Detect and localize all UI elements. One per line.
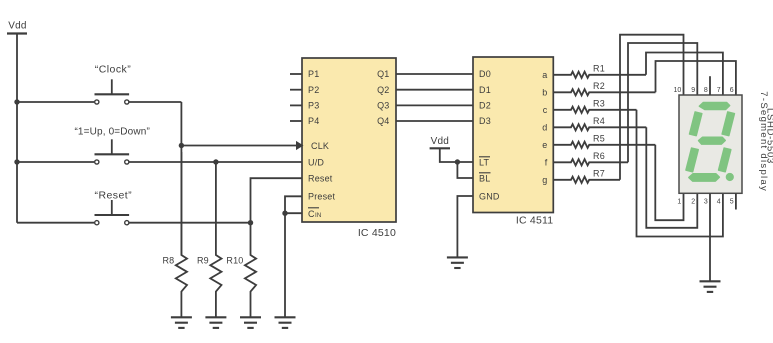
svg-text:“Clock”: “Clock” [95,63,131,75]
pin label CLK + clock arrow [296,141,329,151]
wire left rail vertical [16,34,18,223]
svg-text:5: 5 [730,199,734,206]
svg-text:8: 8 [704,87,708,94]
svg-text:IC 4511: IC 4511 [516,215,553,227]
svg-text:IN: IN [315,212,322,219]
svg-text:Q3: Q3 [377,101,389,111]
svg-text:R4: R4 [593,116,605,126]
svg-text:GND: GND [479,191,500,201]
pin P4 stub [290,120,302,122]
wire R5 to display pin [655,145,683,220]
segment f [690,112,702,136]
svg-text:D2: D2 [479,101,491,111]
wire Q2 to D1 [396,89,473,91]
wire R3 to display pin [637,110,723,237]
pin 5 stub (bottom, n/c) [735,193,737,209]
segment g [699,137,726,144]
svg-text:Reset: Reset [308,174,333,184]
decimal point [726,173,734,181]
svg-text:e: e [542,140,547,150]
junction LT/BL tie [455,159,460,164]
svg-text:D1: D1 [479,85,491,95]
power Vdd (near IC 4511) [430,136,450,148]
svg-text:“Reset”: “Reset” [95,190,133,202]
pin P1 stub [290,73,302,75]
junction rail-U/D [14,159,19,164]
resistor R4 [553,116,646,130]
pin label BL (active low) [479,173,491,184]
svg-text:R10: R10 [226,256,243,266]
svg-text:R9: R9 [197,256,209,266]
svg-text:9: 9 [691,87,695,94]
svg-text:f: f [545,158,548,168]
resistor R6 [553,151,628,166]
resistor R7 [553,168,620,183]
switch "Reset" pushbutton S3 [95,190,133,225]
pin label LT (active low) [479,157,490,168]
svg-text:4: 4 [717,199,721,206]
svg-text:“1=Up, 0=Down”: “1=Up, 0=Down” [74,126,149,137]
switch "Clock" pushbutton S1 [95,63,132,104]
svg-text:1: 1 [677,199,681,206]
wire clock switch to CLK elbow [129,101,181,103]
svg-text:6: 6 [730,87,734,94]
wire GND pin to ground [457,196,473,257]
svg-text:g: g [542,175,547,185]
svg-text:Q4: Q4 [377,116,389,126]
wire R2 to display pin [656,61,736,95]
svg-text:Q2: Q2 [377,85,389,95]
svg-text:R3: R3 [593,98,605,108]
svg-text:Vdd: Vdd [431,136,449,147]
wire Q4 to D3 [396,120,473,122]
IC U2 CD4511 decoder [473,57,553,213]
junction U/D line / R9 [213,159,218,164]
svg-text:10: 10 [674,87,682,94]
svg-text:R6: R6 [593,151,605,161]
segment d [689,174,719,181]
svg-text:d: d [542,123,547,133]
ground for R10 [240,317,261,328]
pin P2 stub [290,89,302,91]
wire rail to U/D switch [17,161,94,163]
ground for R8 [171,317,192,328]
wire reset junction up to Reset input [251,178,303,223]
svg-text:P1: P1 [308,69,319,79]
segment a [699,103,729,110]
pin label Cin (active low) [308,208,322,219]
svg-text:a: a [542,70,547,80]
ground for display [700,281,721,292]
svg-text:U/D: U/D [308,158,324,168]
svg-text:2: 2 [691,199,695,206]
resistor R5 [553,133,655,148]
7-segment digit "8" [686,103,734,182]
pin P3 stub [290,104,302,106]
resistor R10 [226,223,256,317]
resistor R1 [553,63,646,78]
wire CLK input [181,145,302,147]
ground for IC 4511 [447,257,468,268]
wire R1 to display pin [646,53,723,96]
svg-text:C: C [308,209,315,219]
junction Cin tie [282,211,287,216]
wire U/D switch to U/D input [129,161,302,163]
wire Q1 to D0 [396,73,473,75]
svg-text:P3: P3 [308,101,319,111]
wire Vdd to LT [440,148,473,162]
svg-text:b: b [542,88,547,98]
svg-text:D3: D3 [479,116,491,126]
svg-text:Q1: Q1 [377,69,389,79]
svg-text:R1: R1 [593,63,605,73]
svg-text:CLK: CLK [311,141,329,151]
wire R4 to display pin [646,127,697,228]
wire rail to reset switch [17,222,94,224]
wire tie to BL [457,162,473,178]
junction clock line / CLK input [179,143,184,148]
svg-text:P2: P2 [308,85,319,95]
svg-text:P4: P4 [308,116,319,126]
svg-text:D0: D0 [479,69,491,79]
junction reset line / R10 [248,220,253,225]
pin 8 stub (top, n/c) [709,76,711,95]
svg-text:R8: R8 [162,256,174,266]
resistor R9 [197,162,222,317]
svg-text:c: c [543,105,548,115]
segment c [719,148,731,172]
wire Q3 to D2 [396,104,473,106]
svg-text:LT: LT [479,158,490,168]
segment b [722,112,734,136]
resistor R2 [553,81,655,96]
wire Preset to tie-down vertical [285,196,302,316]
wire R6 to display pin [628,43,697,162]
power Vdd (left rail) [7,21,27,34]
svg-text:R5: R5 [593,133,605,143]
resistor R3 [553,98,636,113]
svg-text:R2: R2 [593,81,605,91]
wire R7 to display pin [620,35,684,180]
svg-text:Vdd: Vdd [8,21,26,32]
svg-text:LSHD-5503: LSHD-5503 [764,108,773,164]
junction rail-clock [14,99,19,104]
svg-text:R7: R7 [593,168,605,178]
ground for R9 [205,317,226,328]
switch "1=Up, 0=Down" pushbutton S2 [74,126,149,164]
svg-text:Preset: Preset [308,192,336,202]
svg-text:IC 4510: IC 4510 [358,227,396,239]
svg-text:BL: BL [479,174,490,184]
segment e [686,148,698,172]
wire reset switch to R10 junction [129,222,250,224]
wire clock vertical to R8 [180,102,182,255]
7-segment display U3 LSHD-5503 body [679,95,742,193]
wire Cin stub [285,212,302,214]
resistor R8 [162,152,187,317]
IC U1 CD4510 up/down counter [302,58,396,222]
svg-text:7: 7 [717,87,721,94]
wire pin 3 to ground [709,193,711,280]
wire rail to clock switch [17,101,94,103]
svg-text:3: 3 [704,199,708,206]
ground for Preset/Cin tie [275,317,296,328]
